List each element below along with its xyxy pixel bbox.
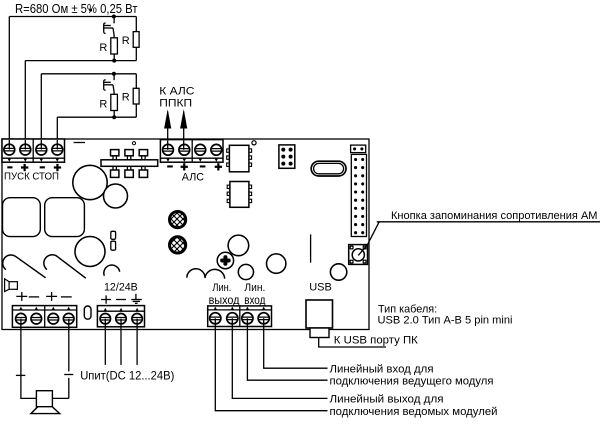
label R — [99, 99, 107, 111]
svg-text:R: R — [122, 35, 130, 47]
mounting hole small circle 2 — [252, 141, 256, 145]
IC U2 — [227, 182, 251, 208]
label R — [122, 92, 130, 104]
screw 12/24В - — [116, 308, 126, 324]
label USB 2.0 — [378, 314, 513, 326]
label Uпит — [80, 369, 174, 382]
hatched capacitor C1 — [170, 212, 186, 228]
polarity plus 12/24В — [101, 295, 111, 303]
screw terminal АЛС 4 — [211, 144, 222, 161]
arrow to АЛС ППКП line 1 — [164, 109, 171, 150]
polarity minus 2 — [61, 296, 72, 298]
screw 12/24В + — [100, 308, 110, 324]
screw line in 2 — [258, 307, 269, 324]
jumper column 3 — [139, 150, 147, 178]
wire circuit2 right branch lower — [135, 104, 137, 117]
polarity minus АЛС2 — [200, 165, 206, 167]
label Кнопка запоминания — [391, 210, 598, 222]
terminal block 12/24В — [97, 306, 144, 327]
svg-text:подключения ведомых модулей: подключения ведомых модулей — [330, 406, 498, 418]
capacitor circle big — [73, 165, 107, 199]
svg-text:Линейный вход для: Линейный вход для — [330, 364, 434, 376]
capacitor circle mid — [104, 184, 128, 208]
polarity plus АЛС1 — [181, 163, 188, 170]
screw 12/24В gnd — [132, 308, 142, 324]
polarity plus 1 — [16, 292, 27, 301]
svg-text:выход: выход — [209, 293, 240, 307]
label вход — [244, 293, 265, 307]
screw speaker - — [31, 307, 42, 324]
wire power - — [120, 319, 122, 365]
USB connector body — [306, 300, 333, 328]
silkscreen vertical line — [310, 234, 312, 262]
wire circuit2 left to screw СТОП- — [40, 74, 42, 150]
resistor R series circuit2 — [111, 94, 118, 110]
wire circuit1 bottom — [25, 60, 136, 62]
screw terminal ПУСК- — [4, 144, 15, 162]
wire circuit2 bottom — [57, 116, 136, 118]
polarity minus АЛС1 — [167, 165, 173, 167]
jumper column 1 — [111, 150, 119, 178]
mounting oval hole — [84, 306, 91, 319]
label подключения ведущего — [330, 376, 494, 388]
polarity minus 12/24В — [116, 299, 126, 301]
polarity minus 1 — [29, 296, 39, 298]
IC U1 — [227, 145, 252, 172]
wire line out 1 — [215, 318, 327, 410]
inductor arc 3 — [104, 265, 120, 276]
screw terminal СТОП+ — [52, 144, 63, 162]
screw line out 2 — [227, 307, 238, 324]
circle D3 — [267, 254, 286, 273]
wire line out 2 — [232, 318, 327, 398]
svg-text:К USB порту ПК: К USB порту ПК — [334, 334, 418, 346]
label К USB порту ПК — [334, 334, 418, 346]
terminal block АЛС — [160, 140, 223, 163]
polarity minus ПУСК — [7, 166, 12, 168]
terminal block ПУСК СТОП — [2, 139, 65, 162]
polarity plus СТОП — [54, 164, 61, 171]
wire stubs into ПУСК СТОП screws — [9, 140, 57, 150]
leader underline — [377, 221, 600, 223]
screw terminal АЛС 1 — [163, 144, 174, 161]
screw terminal ПУСК+ — [20, 144, 31, 162]
label подключения ведомых — [330, 406, 498, 418]
wire line in 1 — [247, 318, 327, 380]
label выход — [209, 293, 240, 307]
wire speaker - — [52, 319, 68, 399]
push button SB2 — [104, 74, 114, 95]
piezo adjust circle with cross — [217, 252, 233, 268]
speaker symbol — [31, 391, 60, 414]
svg-text:R: R — [99, 42, 107, 54]
svg-text:ППКП: ППКП — [159, 97, 192, 109]
wire circuit1 bottom to screw ПУСК+ — [24, 61, 26, 150]
screw terminal СТОП- — [36, 144, 47, 162]
arrow to АЛС ППКП line 2 — [180, 109, 187, 150]
screw line in 1 — [242, 307, 253, 324]
node junction dot circuit1 top — [112, 15, 116, 19]
speaker silkscreen icon — [5, 279, 18, 292]
circle D1 — [228, 235, 249, 256]
resistor R series circuit1 — [111, 38, 118, 54]
screw speaker 3 — [48, 307, 59, 324]
screw line out 1 — [210, 307, 221, 324]
jumper pads pair — [111, 231, 116, 250]
silkscreen mark line — [74, 142, 85, 144]
wire circuit2 bottom to screw СТОП+ — [56, 117, 58, 149]
jumper block bar — [101, 160, 158, 167]
wire circuit1 right branch upper — [135, 17, 137, 32]
node junction dot circuit2 top — [112, 72, 116, 76]
svg-text:Uпит(DC 12...24В): Uпит(DC 12...24В) — [80, 369, 174, 382]
svg-text:ПУСК СТОП: ПУСК СТОП — [4, 171, 59, 182]
mounting hole small circle — [132, 142, 135, 145]
wire USB to PC — [319, 338, 386, 348]
polarity plus 2 — [46, 292, 57, 301]
wire speaker + — [21, 319, 37, 399]
jumper column 2 — [125, 150, 133, 178]
label USB — [309, 282, 332, 294]
label Лин. 2 — [244, 282, 265, 294]
label Линейный выход — [330, 394, 444, 406]
svg-text:R: R — [99, 99, 107, 111]
wire circuit2 top — [41, 73, 136, 75]
wire power gnd — [136, 319, 138, 365]
wire line in 2 — [264, 318, 328, 368]
plus sign speaker — [16, 374, 25, 376]
connector J2 2-pin — [351, 145, 366, 153]
push button SB1 — [104, 17, 114, 38]
label R — [122, 35, 130, 47]
label Тип кабеля: — [378, 304, 437, 316]
svg-text:R=680 Ом ± 5% 0,25 Вт: R=680 Ом ± 5% 0,25 Вт — [15, 2, 138, 16]
minus sign speaker — [64, 374, 73, 376]
svg-text:USB 2.0 Тип A-B 5 pin mini: USB 2.0 Тип A-B 5 pin mini — [378, 314, 513, 326]
label R — [99, 42, 107, 54]
wire circuit1 top — [9, 16, 136, 18]
label К АЛС — [159, 86, 194, 98]
label Лин. 1 — [212, 282, 231, 294]
leader line button — [358, 222, 379, 256]
capacitor circle lower — [75, 237, 105, 267]
terminal block speaker out — [12, 306, 76, 328]
svg-text:Кнопка запоминания сопротивлен: Кнопка запоминания сопротивления АМ — [391, 210, 598, 222]
polarity plus АЛС2 — [215, 163, 222, 170]
wire resistor2 to bottom node — [113, 111, 115, 118]
label Линейный вход — [330, 364, 434, 376]
pin header J3 — [351, 154, 366, 236]
value label R=680 — [15, 2, 138, 16]
svg-text:К АЛС: К АЛС — [159, 86, 194, 98]
label АЛС — [182, 172, 204, 184]
label 12/24В — [104, 282, 138, 294]
label ПУСК СТОП — [4, 171, 59, 182]
ground symbol — [131, 294, 142, 304]
circle near USB — [330, 264, 346, 280]
inductor coil shape 1 — [3, 255, 46, 278]
resistor R parallel circuit1 — [133, 32, 139, 48]
circle D2 — [238, 264, 253, 279]
wire power + — [104, 319, 106, 365]
inductor coil shape 2 — [44, 255, 86, 278]
svg-text:вход: вход — [244, 293, 265, 307]
hatched capacitor C2 — [170, 237, 186, 253]
resistor R parallel circuit2 — [133, 88, 139, 104]
pcb board outline — [2, 139, 369, 330]
wire circuit1 left to screw ПУСК- — [8, 17, 10, 150]
button SB3 memory — [349, 245, 368, 265]
svg-text:подключения ведущего модуля: подключения ведущего модуля — [330, 376, 494, 388]
USB plug — [310, 328, 329, 338]
node junction dot circuit1 bottom — [112, 59, 116, 63]
screw speaker + — [16, 307, 27, 324]
relay K2 rounded square — [45, 198, 85, 237]
svg-text:USB: USB — [309, 282, 332, 294]
screw terminal АЛС 3 — [195, 144, 206, 161]
screw terminal АЛС 2 — [179, 144, 190, 161]
wire circuit2 right branch upper — [135, 74, 137, 89]
svg-text:Линейный выход для: Линейный выход для — [330, 394, 444, 406]
svg-text:R: R — [122, 92, 130, 104]
polarity minus СТОП — [40, 166, 45, 168]
svg-text:АЛС: АЛС — [182, 172, 204, 184]
wire resistor1 to bottom node — [113, 54, 115, 61]
label ППКП — [159, 97, 192, 109]
node junction dot circuit2 bottom — [112, 115, 116, 119]
terminal block line out/in — [208, 306, 272, 327]
wire stubs into АЛС screws — [168, 140, 184, 149]
polarity plus ПУСК — [21, 164, 28, 171]
oval mounting slot — [311, 161, 346, 176]
inductor double arc — [187, 269, 225, 279]
screw speaker 4 — [63, 307, 74, 324]
connector J1 6-hole — [279, 145, 295, 168]
wire circuit1 right branch lower — [135, 47, 137, 60]
svg-text:12/24В: 12/24В — [104, 282, 138, 294]
relay K1 rounded square — [3, 198, 41, 237]
